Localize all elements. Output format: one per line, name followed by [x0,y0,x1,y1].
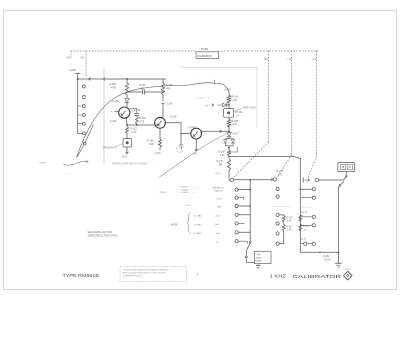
svg-text:.001: .001 [140,88,145,90]
wire loop drop [249,180,251,243]
svg-text:Q-151: Q-151 [110,120,118,123]
mode table brace [187,212,191,233]
resistor R-178 [299,224,310,231]
stub branch [229,147,237,152]
resistor R-176 [299,209,308,222]
resistor R-152 [126,127,138,134]
partial mode note [112,162,156,165]
junction +100V node [77,78,79,80]
switch contacts column 2 [276,187,279,245]
resistor R-160 [147,128,162,150]
transistor Q-162 [189,126,202,139]
svg-text:+100V: +100V [224,89,232,92]
wafer 1 contact 6 [78,132,86,135]
note small [184,205,193,207]
wafer 1 stator line [76,74,80,134]
wire to frequency cap [126,134,128,139]
frequency trimmer box C-153 [123,139,132,148]
faint ghost bracket [180,68,257,129]
wire +100V rail [78,78,166,80]
wire Q-162 collector [202,130,229,132]
junction divider tap [228,156,230,158]
annotation curve to diodes [160,132,230,177]
svg-text:2.5K: 2.5K [287,230,292,232]
tiny parenthetical [64,174,71,176]
resistor R-156 [161,79,173,95]
svg-text:W/MOD: W/MOD [160,192,168,194]
wire mid RC [126,91,164,93]
svg-text:Q-159: Q-159 [170,116,178,119]
dashed diagonal A to wiper 1 [234,142,269,178]
transistor Q-159 [155,116,177,129]
squiggle arrow [63,160,89,165]
arrow to ground leg [339,182,344,187]
resistor R-177 [279,222,293,244]
wafer 1 contact 2 [82,96,85,99]
svg-text:SERIAL NO: SERIAL NO [213,187,224,190]
junction diode pair bottom [228,146,230,150]
svg-text:···· 1N3605 ···· ·· ··· ···: ···· 1N3605 ···· ·· ··· ··· [178,189,199,191]
label wafer A [264,59,269,61]
contact row B4 [302,224,315,227]
svg-text:-150V: -150V [121,155,128,158]
label +100V node [224,89,232,92]
svg-text:5mV: 5mV [217,207,222,209]
tick on ganged curve [214,80,216,84]
contact row B2 [302,196,316,199]
wafer 1 contact 1 [82,85,85,88]
wiper 3 contact [303,178,318,182]
arrow to jack [344,176,347,180]
divider chain vertical [299,158,301,252]
label R-173 [277,171,284,176]
gray contact row B [300,206,311,208]
scanned page border [4,11,397,290]
svg-text:-150V: -150V [155,153,162,155]
mode row 3 [194,233,202,235]
dashed linkage drop A [268,51,270,142]
contact row B3 [302,215,315,218]
junction emitter node [126,124,128,126]
svg-text:1K: 1K [236,115,239,117]
output bus [300,251,339,253]
calibrated loop label box [254,252,271,264]
wiper 2 contact [271,178,276,181]
svg-text:CALIB-: CALIB- [255,256,262,259]
connection arrow 1 [89,78,91,80]
dashed diagonal C to wiper 3 [309,157,317,178]
diode D-167 [227,133,240,137]
svg-text:PLUG: PLUG [325,260,331,262]
svg-text:···· 1N4152 ····· ···· ····: ···· 1N4152 ····· ···· ···· [178,187,199,189]
junction R-155 bottom [136,124,138,126]
svg-text:OTHERWISE NOTED ··· ·· ··: OTHERWISE NOTED ··· ·· ·· [123,275,149,277]
svg-text:+.6V: +.6V [204,106,209,108]
dashed linkage drop B [291,51,293,155]
dashed MODE switch linkage bus [71,51,318,58]
annotation C-150 ganged [198,97,210,99]
svg-text:R-169: R-169 [219,152,226,154]
parallel diodes D-168 D-169 [221,138,238,146]
wire into loop box [246,258,254,262]
junction collector node [228,127,230,132]
svg-text:R-177: R-177 [286,226,293,228]
svg-text:1-9B: 1-9B [312,59,317,61]
svg-text:50mV: 50mV [217,198,223,200]
mode row 1 [194,215,203,217]
capacitor C-152 [139,85,146,94]
resistor R-170 [217,159,231,171]
svg-text:· ····: · ···· [123,278,127,280]
label +8.6V [192,154,199,156]
svg-text:MODE: MODE [201,48,209,51]
thermistor box RT-164 [224,103,244,117]
svg-text:AMPLITUDE: AMPLITUDE [243,106,257,109]
svg-text:C-163: C-163 [177,152,184,154]
svg-text:R-175: R-175 [286,217,293,219]
junction R150 top [126,78,128,80]
wafer 1 contact 4 [78,114,86,117]
svg-text:WITH CONTROLS SET AS FOLLOWS U: WITH CONTROLS SET AS FOLLOWS UNLESS [123,271,167,274]
svg-text:C-150 (·····): C-150 (·····) [198,97,210,99]
resistor R-155 [135,116,146,124]
svg-text:R-155: R-155 [139,118,146,120]
svg-text:RT-164: RT-164 [235,112,243,114]
svg-text:R-179: R-179 [300,239,307,241]
dashed linkage drop C [315,51,317,157]
svg-text:R-176: R-176 [301,212,308,214]
title 1kHz [270,274,287,279]
svg-text:5.1K: 5.1K [132,131,137,134]
contact pair bottom [300,242,315,245]
labels column 1 [213,187,224,244]
svg-text:(1 kc): (1 kc) [215,173,221,175]
resistor R-166 [227,117,238,127]
svg-text:RATED: RATED [255,260,262,263]
label wafer C [312,59,317,61]
svg-text:C-152: C-152 [139,85,146,87]
wafer 1 contact 5 [78,122,86,125]
svg-text:470K: 470K [111,86,117,89]
connection arrow 2 [103,78,105,80]
svg-text:CALIBRATOR: CALIBRATOR [293,274,342,280]
diode D-151 [113,95,130,107]
label SW left end [67,58,72,60]
label SW wafer 1 [81,58,86,60]
label -150V emitter [155,153,162,155]
svg-text:D-167: D-167 [233,134,240,136]
faint ghost text [196,78,203,84]
title CALIBRATOR [293,274,342,280]
label +.6V [204,104,214,108]
resistor R-175 [279,215,293,223]
wire R-156 to Q-159 [162,95,164,118]
label R-181 [323,256,331,261]
svg-text:1 KHZ: 1 KHZ [270,274,287,279]
diode D-164 [218,103,230,107]
svg-text:RATE··: RATE·· [40,162,47,165]
svg-text:R-173: R-173 [277,171,284,173]
capacitor C-163 [176,145,184,154]
svg-text:4.7K: 4.7K [232,99,237,102]
svg-text:6.2K: 6.2K [287,221,292,223]
mode row 2 [194,224,203,226]
title TYPE RM561B [63,273,100,278]
label +100V supply [69,68,77,72]
svg-text:C-154: C-154 [134,110,141,112]
svg-text:TYPE RM561B: TYPE RM561B [63,273,100,278]
wire Q-151 collector down [126,118,129,125]
label rate annotation [40,162,47,165]
contact row B1 [299,188,315,191]
wire Q-162 base [180,133,190,135]
svg-text:· ···· ··: · ···· ·· [196,78,203,80]
tiny R6B mark [345,269,349,271]
svg-text:2000-UP: 2000-UP [214,191,223,193]
wire loop jog [245,243,250,258]
divider chain entry [294,157,300,159]
svg-text:5mA: 5mA [256,253,261,256]
wire tap row [229,156,294,158]
wiper 1 contact [229,178,234,181]
mode table label [167,225,178,227]
plus reference mark [197,273,199,277]
svg-text:CALIBRATOR: CALIBRATOR [197,55,212,58]
svg-text:15K: 15K [219,165,224,167]
svg-text:VOLTAGES AND WAVEFORMS WERE OB: VOLTAGES AND WAVEFORMS WERE OBTAINED [123,268,169,271]
resistor R-163 [227,92,238,103]
wire ground leg [337,187,339,263]
svg-text:R-178: R-178 [303,226,310,228]
wire to wiper 1 [215,171,229,178]
svg-text:···· 1N3606 ···· ···· ··: ···· 1N3606 ···· ···· ·· [178,192,197,194]
dashed linkage drop to first wafer [85,51,87,78]
label AMPLITUDE [235,106,257,111]
svg-text:5 µSEC: 5 µSEC [194,233,202,235]
tektronix diamond logo [344,271,353,280]
svg-text:3.9K: 3.9K [149,143,154,146]
svg-text:· NOTE ·: · NOTE · [184,205,193,207]
svg-text:+: + [197,273,199,277]
svg-text:( ··· ·· ): ( ··· ·· ) [64,174,71,176]
wire Q-159 output [165,123,181,145]
resistor R-150 [110,79,129,95]
ganged linkage curve to +100V node [77,83,230,158]
svg-text:Q-162: Q-162 [189,126,197,129]
wafer 1 contact 3 [78,105,86,108]
wire Q-162 emitter [195,139,197,151]
svg-text:+100V: +100V [69,68,77,72]
svg-text:1 mSEC: 1 mSEC [194,224,203,226]
label C-154 [132,109,141,112]
conditions note box [120,267,187,282]
resistor R-169 [219,150,231,158]
svg-text:4.7K: 4.7K [232,123,237,126]
wire wiper bus [233,179,272,181]
label R-179 [300,239,307,243]
sheet boundary line [103,69,105,165]
wafer 1 wiper arm [78,125,94,157]
see parts list note [88,231,118,238]
svg-text:R-181: R-181 [323,256,330,258]
ground loop [256,264,260,269]
capacitor C-154 [130,109,139,116]
svg-text:C-158: C-158 [166,104,173,106]
svg-text:PARTIAL MODE SWITCH SHOWN: PARTIAL MODE SWITCH SHOWN ····· ··· · [112,162,156,165]
svg-text:D-151: D-151 [113,100,120,103]
svg-text:SEMICONDUCTOR TYPES: SEMICONDUCTOR TYPES [88,235,118,238]
notes block [160,187,199,195]
wire to -150V [126,147,128,154]
contact wires column 1 [238,189,251,244]
dashed diagonal B to wiper 2 [278,155,292,177]
wire interstage bottom [127,124,160,126]
junction loop takeoff [249,179,251,181]
svg-text:2mV: 2mV [216,233,221,235]
label 1kc [0,0,1,1]
switch contacts column 1 [235,188,238,243]
svg-text:5.6K: 5.6K [220,155,225,157]
svg-text:R-170: R-170 [217,161,224,163]
output jack J-180 [338,163,355,172]
wire output row [319,179,344,181]
jack stub [345,172,347,176]
svg-text:SEE PARTS LIST FOR: SEE PARTS LIST FOR [88,231,113,234]
svg-text:FREQUENCY: FREQUENCY [103,148,118,150]
label FREQUENCY [103,144,123,150]
gray contact row [272,205,292,207]
ground main [335,263,341,267]
svg-text:0.2 SEC: 0.2 SEC [194,215,203,217]
svg-text:1mV: 1mV [215,224,220,226]
base lead Q-151 [111,110,119,113]
transistor Q-151 [110,107,130,123]
test arrow C-158 [162,103,173,106]
label -150V [121,155,128,158]
MODE CALIBRATOR switch box [196,48,219,58]
faint page number [194,295,195,298]
svg-text:···· MODE: ···· MODE [167,225,178,227]
svg-text:0.5V: 0.5V [216,216,221,218]
label wafer B [287,59,292,61]
svg-text:47K: 47K [166,87,171,90]
svg-text:1-9B: 1-9B [287,59,292,61]
